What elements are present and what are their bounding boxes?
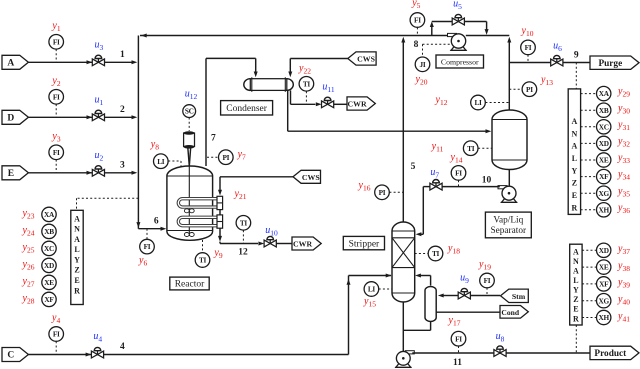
svg-text:3: 3 [120,160,125,170]
arrow stream 5 into recycle [401,37,405,43]
svg-text:Vap/Liq: Vap/Liq [493,216,523,226]
svg-text:XD: XD [599,139,609,148]
wire compressor bypass [431,27,433,36]
wire purge analyzer sample dashed [575,63,577,89]
svg-text:9: 9 [574,50,579,60]
svg-text:D: D [7,113,14,123]
instrument FI y6 [146,229,148,240]
svg-text:FI: FI [455,169,462,178]
svg-text:1: 1 [120,50,125,60]
arrow before valve u10 [258,242,264,246]
wire stream 10 separator liquid to stripper [442,186,500,188]
svg-text:XG: XG [599,296,610,305]
wire between coil nozzles [219,210,221,215]
instrument XF purge composition [581,176,597,178]
reactor cooling coil upper [178,199,217,207]
valve u9 [458,292,464,299]
instrument PI y7 reactor pressure [207,156,218,158]
svg-text:2: 2 [120,105,125,115]
valve u8 [494,350,500,357]
instrument XD composition [42,264,57,266]
svg-text:A: A [572,117,578,126]
svg-text:TI: TI [240,218,248,227]
feed tag A [2,55,28,69]
agitator shaft [188,149,189,167]
svg-text:A: A [74,235,80,244]
tag Stm [501,289,529,302]
svg-text:Condenser: Condenser [226,104,267,114]
svg-text:Purge: Purge [598,59,622,69]
tag Product [590,346,639,359]
wire to CWR tag [276,243,292,245]
svg-text:Reactor: Reactor [175,280,205,290]
svg-text:FI: FI [53,330,60,339]
compressor [451,47,466,51]
analyzer purge gas [568,89,580,214]
wire stream 7 reactor overhead [205,58,207,166]
svg-text:E: E [74,276,79,285]
svg-text:Z: Z [573,295,578,304]
condenser heat exchanger [250,79,286,91]
svg-text:Y: Y [74,255,80,264]
svg-text:A: A [74,214,80,223]
svg-text:XH: XH [599,313,610,322]
stripper packing section [392,237,415,239]
svg-text:XG: XG [599,189,610,198]
instrument XG product composition [582,300,596,302]
agitator impellers [184,209,189,213]
instrument XF composition [42,298,57,300]
separator vessel [492,110,527,170]
instrument XA composition [42,213,57,215]
svg-text:E: E [572,191,577,200]
svg-text:TI: TI [432,249,440,258]
arrow feed bus down [136,222,140,228]
svg-text:A: A [572,142,578,151]
arrow separator vapor into recycle [507,37,511,43]
instrument XH purge composition [581,209,597,211]
svg-text:5: 5 [411,162,416,172]
svg-text:N: N [572,129,578,138]
svg-text:8: 8 [414,40,419,50]
svg-text:Cond: Cond [501,308,520,317]
equipment label Compressor [436,55,484,68]
wire analyzer sample dashed from stream 6 bus [77,197,139,199]
svg-text:TI: TI [467,144,475,153]
arrow into coil nozzle [218,190,222,196]
svg-text:XB: XB [599,106,609,115]
valve u7 [430,183,436,190]
instrument FI y2 [55,104,57,117]
svg-text:XA: XA [599,89,610,98]
instrument XE purge composition [581,159,597,161]
arrow feed E into bus [132,171,138,175]
svg-text:XD: XD [44,261,54,270]
svg-text:FI: FI [53,148,60,157]
tag Cond [500,306,528,319]
svg-text:Stripper: Stripper [349,239,380,249]
instrument XA purge composition [581,93,597,95]
wire stream 5 stripper overhead [402,41,404,222]
svg-text:Z: Z [74,266,79,275]
instrument XC composition [42,247,57,249]
svg-text:Compressor: Compressor [441,58,479,67]
wire feed A line [28,61,131,63]
instrument XF product composition [582,283,596,285]
svg-text:N: N [74,225,80,234]
wire CWS supply to condenser [290,58,348,60]
svg-text:L: L [74,245,79,254]
arrow bypass return [485,29,489,35]
instrument TI y21 reactor cw outlet [242,230,244,243]
wire steam line [470,295,500,297]
wire condenser CWR line [290,91,292,105]
wire feed E line [28,172,131,174]
instrument TI y22 condenser cw outlet [305,91,307,104]
wire feed D line [28,116,131,118]
svg-text:Y: Y [573,286,579,295]
arrow recycle into feed bus [141,34,147,38]
svg-text:XD: XD [599,246,609,255]
instrument PI y13 separator pressure [509,88,522,90]
instrument XB purge composition [581,109,597,111]
wire separator vapor riser [508,41,510,110]
tag CWS reactor [293,170,321,183]
svg-text:CWR: CWR [348,100,367,109]
arrow into reactor [161,227,167,231]
arrow feed D into bus [132,115,138,119]
instrument FI y14 separator underflow [458,180,460,186]
svg-text:XC: XC [599,122,609,131]
svg-text:FI: FI [53,92,60,101]
svg-text:Product: Product [594,349,627,359]
svg-text:LI: LI [157,157,165,166]
arrow before valve u11 [316,102,322,106]
svg-text:FI: FI [53,37,60,46]
wire feed bus vertical [137,36,139,229]
wire feed C / stream 4 line [28,354,348,356]
svg-text:XF: XF [599,172,609,181]
pump stripper bottoms [396,364,411,368]
stripper column [392,222,415,302]
svg-text:N: N [573,257,579,266]
instrument FI y3 [55,160,57,173]
svg-text:TI: TI [199,256,207,265]
pump separator underflow [502,199,517,203]
valve u4 [86,353,92,357]
instrument LI y15 stripper level [379,288,392,290]
instrument XH product composition [582,317,596,319]
svg-text:R: R [573,314,579,323]
svg-text:CWS: CWS [357,55,375,64]
wire recycle line stream 8 (top) [140,35,451,37]
svg-text:LI: LI [474,98,482,107]
arrow steam into reboiler [438,294,444,298]
instrument XC purge composition [581,126,597,128]
svg-text:XB: XB [44,227,54,236]
svg-text:XH: XH [599,205,610,214]
svg-text:XC: XC [44,244,54,253]
valve u10 [264,240,270,247]
svg-text:6: 6 [154,216,159,226]
svg-text:L: L [572,154,577,163]
svg-text:CWR: CWR [293,240,312,249]
svg-text:XA: XA [44,210,55,219]
arrow reboiler return into stripper [415,274,421,278]
svg-text:A: A [573,247,579,256]
svg-text:LI: LI [368,285,376,294]
svg-text:TI: TI [303,79,311,88]
instrument XE product composition [582,266,596,268]
wire reboiler vapor return [430,276,432,286]
valve u6 [551,59,557,66]
instrument FI y10 purge flow [527,55,529,63]
wire separator bottom to pump [508,170,510,188]
reactor cooling coil lower [178,217,217,225]
svg-text:FI: FI [484,276,491,285]
analyzer product [570,244,582,325]
svg-text:A: A [7,58,14,68]
svg-text:11: 11 [453,358,462,368]
svg-text:XE: XE [599,263,609,272]
instrument FI y5 recycle flow [416,27,418,35]
svg-text:Y: Y [572,166,578,175]
feed tag C [2,348,28,362]
svg-text:Z: Z [572,179,577,188]
wire reactor feed stream 6 [138,228,160,230]
svg-text:XE: XE [599,156,609,165]
svg-text:FI: FI [414,16,421,25]
svg-text:Separator: Separator [490,226,527,236]
instrument FI y4 [55,341,57,354]
instrument JI y20 compressor work [422,44,424,57]
wire purge line stream 9 [509,62,551,64]
wire product analyzer sample dashed [575,325,577,353]
arrow into condenser [254,72,258,78]
svg-text:E: E [573,305,578,314]
wire coil outlet down [219,228,221,236]
wire condensate line [436,311,500,313]
tag CWR reactor [292,237,321,250]
svg-text:FI: FI [144,242,151,251]
instrument LI y8 reactor level [168,160,181,162]
valve u11 [322,101,328,108]
instrument TI y18 stripper temperature [415,253,429,255]
svg-text:XF: XF [599,280,609,289]
feed tag E [2,166,28,180]
svg-text:XF: XF [44,295,54,304]
arrow stream 10 into stripper [416,232,422,236]
agitator motor [184,133,195,147]
instrument XD purge composition [581,142,597,144]
svg-text:R: R [74,286,80,295]
arrow feed A into bus [132,60,138,64]
instrument PI y16 stripper pressure [389,191,403,193]
svg-text:C: C [7,351,14,361]
svg-text:SC: SC [185,107,194,116]
coil nozzle lower [217,215,223,228]
svg-text:Stm: Stm [512,292,526,301]
arrow CWS into condenser [288,72,292,78]
svg-text:10: 10 [482,176,492,186]
tag CWS condenser [348,52,376,65]
wire stream 4 riser to stripper [348,276,350,355]
instrument XD product composition [582,249,596,251]
svg-text:PI: PI [222,153,229,162]
svg-text:PI: PI [526,85,533,94]
svg-text:4: 4 [120,342,125,352]
svg-text:R: R [572,203,578,212]
instrument TI y9 reactor temperature [202,240,204,253]
svg-text:E: E [8,169,14,179]
svg-text:JI: JI [420,60,426,69]
wire reactor CWS line [220,176,293,178]
wire product line stream 11 [412,352,494,354]
instrument TI y11 separator temperature [478,147,492,149]
svg-text:XE: XE [44,278,54,287]
instrument FI y1 [55,49,57,62]
instrument FI y19 steam flow [486,288,488,296]
tag CWR condenser [347,97,375,110]
wire condenser outlet to separator [287,90,289,131]
wire reboiler bottom loop [430,322,432,331]
valve u5 [452,18,458,25]
svg-text:FI: FI [455,334,462,343]
wire stripper bottoms [402,302,404,352]
reactor vessel [167,166,213,240]
reboiler [425,287,436,322]
svg-text:u5: u5 [453,0,462,11]
svg-text:CWS: CWS [302,173,320,182]
svg-text:A: A [573,266,579,275]
valve u1 [87,115,93,119]
equipment label Reactor [170,277,209,290]
instrument XE composition [42,281,57,283]
equipment label Vap/Liq Separator [485,212,531,238]
arrow stream 4 into stripper [386,274,392,278]
equipment label Condenser [221,101,273,115]
instrument XB composition [42,230,57,232]
instrument SC u12 agitator speed [188,118,190,132]
svg-text:PI: PI [379,188,386,197]
tag Purge [590,56,639,69]
analyzer left (reactor feed) [71,210,83,304]
svg-text:FI: FI [525,43,532,52]
coil nozzle upper [217,196,223,209]
feed tag D [2,110,28,124]
equipment label Stripper [343,236,384,249]
svg-text:L: L [573,276,578,285]
instrument XG purge composition [581,192,597,194]
valve u2 [87,171,93,175]
valve u3 [87,60,93,64]
svg-text:7: 7 [211,134,216,144]
instrument LI y12 separator level [485,102,509,104]
instrument FI y17 product flow [458,346,460,353]
svg-text:12: 12 [238,247,248,257]
arrow into separator [486,129,492,133]
